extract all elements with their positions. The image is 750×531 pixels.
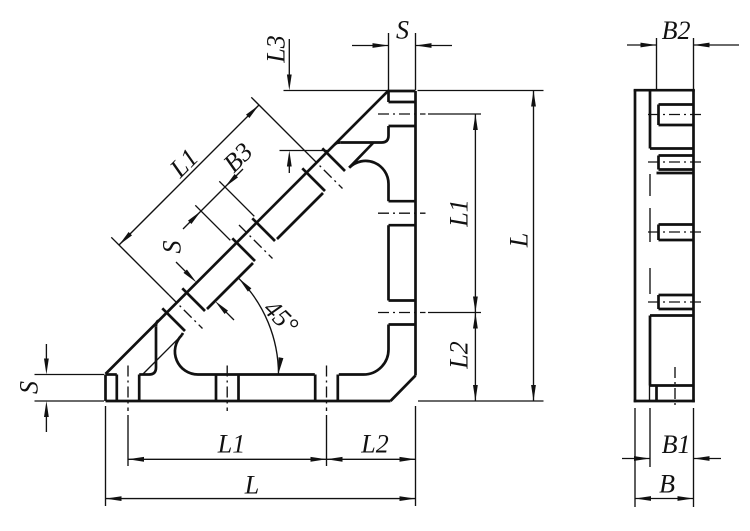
- L3 lower extension line: [280, 150, 330, 152]
- svg-text:B: B: [659, 470, 675, 499]
- L3 dim shaft lower: [288, 165, 290, 173]
- L3 arrow up: [287, 151, 292, 167]
- 45deg arrow at horizontal leg: [279, 357, 284, 373]
- leg slot edge y=300.5: [389, 299, 416, 302]
- side bottom leg cross-section rect: [649, 316, 652, 386]
- L1-bottom arrow right: [311, 457, 327, 462]
- B1 tail left: [622, 458, 650, 460]
- bottom slot edge x=315.25: [314, 375, 317, 402]
- leg slot edge y=225.25: [389, 224, 416, 227]
- diagonal band end face (bottom-left): [155, 326, 158, 367]
- ext line y=90.5 right: [418, 90, 544, 92]
- diag slot edge c=146.0: [162, 308, 185, 331]
- L1-diag arrow upper: [246, 105, 259, 118]
- svg-text:L2: L2: [360, 430, 388, 459]
- leg slot1 tab: [659, 103, 694, 106]
- leg slot edge y=201.25: [389, 200, 416, 203]
- B1 arrow left: [634, 456, 650, 461]
- S-left arrow down: [44, 359, 49, 375]
- ext line x=128 bottom: [127, 415, 129, 466]
- part left edge: [104, 375, 107, 402]
- B2 arrow left: [641, 43, 657, 48]
- B2 tail right: [694, 44, 740, 46]
- diag bottom slot tab: [659, 294, 694, 297]
- L dim line x=533.5: [533, 91, 535, 402]
- B2 tail left: [627, 44, 657, 46]
- svg-text:B1: B1: [662, 430, 691, 459]
- L-bottom arrow left: [106, 496, 122, 501]
- svg-text:L2: L2: [445, 341, 474, 369]
- S-left extension upper: [35, 374, 105, 376]
- S-top dim line left tail: [352, 45, 389, 47]
- big cutout fillet top-right r23: [349, 161, 388, 184]
- diag slot centerline c=-14.0: [239, 225, 273, 259]
- L1-diag arrow lower: [119, 232, 132, 245]
- bottom-left pocket corner fillet at D0: [156, 321, 158, 327]
- bottom slot edge x=337.75: [336, 375, 339, 402]
- side bottom slot axis dash-dot: [674, 367, 676, 408]
- B3 arrow lower (outside): [188, 211, 201, 224]
- L-bottom arrow right: [400, 496, 416, 501]
- leg slot edge y=102.0: [389, 101, 416, 104]
- side right edge: [692, 90, 695, 403]
- apex pocket fillet r7: [382, 136, 389, 143]
- L3 dim shaft upper: [288, 39, 290, 76]
- svg-text:L3: L3: [262, 35, 291, 63]
- svg-text:S: S: [396, 16, 409, 45]
- S-top extension line left: [388, 33, 390, 90]
- diag slot edge c=-34.0: [252, 218, 275, 241]
- S-diag arrow onto D1: [215, 301, 228, 314]
- L1/L2 dim line y=459.3: [128, 458, 416, 460]
- bottom slot edge x=216.0: [215, 375, 218, 402]
- B2 ext right: [693, 38, 695, 90]
- diag slot centerline c=126.0: [169, 295, 203, 329]
- ext line y=401 right: [418, 400, 544, 402]
- S-left extension lower: [35, 400, 105, 402]
- inner diagonal D1 segments: [349, 143, 373, 168]
- S-top arrow left: [373, 43, 389, 48]
- part top edge: [389, 90, 416, 93]
- svg-text:L: L: [505, 233, 534, 248]
- S-top extension line right: [415, 33, 417, 90]
- side left edge: [634, 90, 637, 403]
- bottom slot edge x=139.25: [138, 375, 141, 402]
- S-left dim shaft upper: [45, 344, 47, 361]
- big cutout fillet bottom-right r25: [364, 350, 389, 375]
- bottom slot centerline x=128.0: [127, 366, 129, 412]
- B ext left x=635: [634, 408, 636, 507]
- L-right arrow up: [531, 91, 536, 107]
- outer diagonal hypotenuse D0: [106, 91, 389, 375]
- L1-right arrow up: [473, 114, 478, 130]
- diag center slot tab: [659, 223, 694, 226]
- S-left dim shaft lower: [45, 415, 47, 432]
- side bottom edge: [634, 400, 695, 403]
- svg-text:S: S: [15, 381, 44, 394]
- S-diag shaft upper: [176, 262, 186, 272]
- ext line x=105.5 bottom: [105, 406, 107, 506]
- B1 arrow right: [694, 456, 710, 461]
- svg-text:S: S: [158, 241, 187, 254]
- side bottom slot wall thin: [649, 386, 651, 402]
- leg slot centerline y=312.5: [378, 312, 426, 314]
- leg slot centerline y=114.0: [378, 113, 426, 115]
- B1 ext left x=650: [649, 408, 651, 467]
- diag apex slot tab: [659, 154, 694, 157]
- svg-text:L1: L1: [445, 199, 474, 227]
- B3 extension upper: [219, 181, 254, 216]
- side inner wall hidden dash 2: [649, 208, 651, 242]
- B dim line: [635, 498, 694, 500]
- side line y=148.5 (apex slot edge): [650, 147, 694, 150]
- 45deg arrow at D1 leg: [239, 278, 252, 291]
- ext line x=326.5 bottom: [326, 415, 328, 466]
- L-right arrow down: [531, 385, 536, 401]
- bottom slot edge x=116.75: [115, 375, 118, 402]
- B2 ext left: [656, 38, 658, 90]
- B arrow right: [678, 496, 694, 501]
- S-diag arrow onto D0: [184, 270, 197, 283]
- B arrow left: [635, 496, 651, 501]
- ext line y=312.5 right: [428, 312, 481, 314]
- part right outer edge: [414, 91, 417, 376]
- side top edge: [634, 89, 695, 92]
- apex pocket corner fillet at D0: [335, 143, 341, 145]
- B3 dim tail lower: [183, 211, 201, 229]
- L2-right arrow down: [473, 385, 478, 401]
- ext line y=114 right: [428, 113, 481, 115]
- L dim line y=498.6: [106, 498, 416, 500]
- side line y=173 (apex slot edge): [657, 172, 694, 175]
- diagonal band end face (apex): [340, 141, 381, 144]
- diag slot edge c=6.0: [232, 238, 255, 261]
- L2-right arrow up: [473, 313, 478, 329]
- L3 upper extension line: [284, 90, 389, 92]
- diag slot edge c=-174.0: [322, 148, 345, 171]
- chamfer bottom-right: [391, 376, 416, 402]
- right leg inner edge x=388.5 segments: [387, 91, 390, 102]
- B/B1 ext right x=693.5: [693, 408, 695, 507]
- diag slot edge c=106.0: [182, 288, 205, 311]
- bottom slot centerline x=227.25: [226, 366, 228, 412]
- svg-text:B2: B2: [662, 16, 691, 45]
- bottom slot centerline x=326.5: [326, 366, 328, 412]
- L1-diag extension lower: [111, 237, 169, 295]
- L1/L2 dim line x=475.4: [474, 114, 476, 401]
- 45deg extension along D1: [143, 335, 182, 374]
- bottom-left pocket fillet r7: [149, 368, 156, 375]
- bottom slot edge x=238.5: [237, 375, 240, 402]
- S-top arrow right: [416, 43, 432, 48]
- L1-diag extension upper: [251, 97, 309, 155]
- side inner wall hidden dash 1: [649, 174, 651, 196]
- L1-bottom arrow left: [128, 457, 144, 462]
- L2-bottom arrow right: [400, 457, 416, 462]
- B3 extension lower: [195, 205, 230, 240]
- big cutout fillet bottom-left r23: [175, 335, 198, 374]
- ext line x=415.5 bottom: [415, 406, 417, 506]
- side inner wall solid: [649, 90, 652, 148]
- diag slot centerline c=-154.0: [309, 155, 343, 189]
- L1-right arrow down: [473, 297, 478, 313]
- L1-diag dimension line: [119, 105, 259, 245]
- side inner wall hidden dash 3: [649, 268, 651, 294]
- svg-text:L: L: [244, 471, 259, 500]
- bottom band top edge y=374.5 segments: [106, 373, 117, 376]
- leg slot centerline y=213.25: [378, 212, 426, 214]
- B3 dim line between ext: [201, 187, 225, 211]
- L3 arrow down: [287, 75, 292, 91]
- B1 tail right: [694, 458, 722, 460]
- leg slot edge y=324.5: [389, 323, 416, 326]
- S-left arrow up: [44, 401, 49, 417]
- B2 arrow right: [694, 43, 710, 48]
- L2-bottom arrow left: [327, 457, 343, 462]
- svg-text:L1: L1: [217, 430, 245, 459]
- B3 dim tail upper: [225, 169, 243, 187]
- S-diag shaft lower: [225, 311, 234, 320]
- S-top dim line right tail: [416, 45, 453, 47]
- part bottom edge: [106, 400, 391, 403]
- B3 arrow upper (outside): [225, 174, 238, 187]
- 45deg arc: [239, 278, 279, 374]
- diag slot edge c=-134.0: [302, 168, 325, 191]
- side bottom slot wall thick: [655, 386, 658, 402]
- leg slot edge y=126.0: [389, 125, 416, 128]
